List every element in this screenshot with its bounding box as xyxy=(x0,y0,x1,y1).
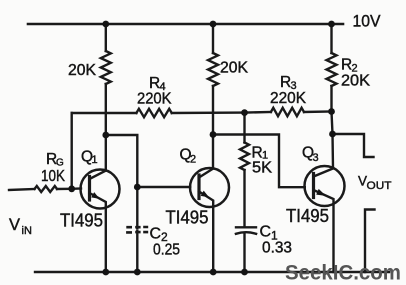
svg-text:20K: 20K xyxy=(220,60,249,77)
svg-text:SeekIC.com: SeekIC.com xyxy=(285,262,401,285)
svg-text:iN: iN xyxy=(22,225,32,237)
svg-text:10V: 10V xyxy=(353,13,381,31)
svg-text:G: G xyxy=(56,158,64,169)
svg-text:TI495: TI495 xyxy=(286,205,329,226)
svg-text:5K: 5K xyxy=(252,160,273,177)
svg-text:0.33: 0.33 xyxy=(262,240,292,257)
svg-text:220K: 220K xyxy=(137,91,172,108)
svg-text:3: 3 xyxy=(313,152,319,164)
svg-text:TI495: TI495 xyxy=(60,210,103,231)
svg-text:1: 1 xyxy=(92,154,98,166)
svg-text:C: C xyxy=(260,224,272,241)
svg-text:20K: 20K xyxy=(341,73,371,90)
svg-text:220K: 220K xyxy=(270,90,307,107)
svg-text:0.25: 0.25 xyxy=(153,242,180,259)
svg-text:20K: 20K xyxy=(68,62,97,79)
svg-text:V: V xyxy=(9,216,20,234)
svg-text:C: C xyxy=(150,226,162,243)
svg-text:TI495: TI495 xyxy=(166,207,209,228)
svg-text:2: 2 xyxy=(190,154,196,166)
svg-text:10K: 10K xyxy=(41,168,66,185)
svg-text:OUT: OUT xyxy=(367,180,392,192)
